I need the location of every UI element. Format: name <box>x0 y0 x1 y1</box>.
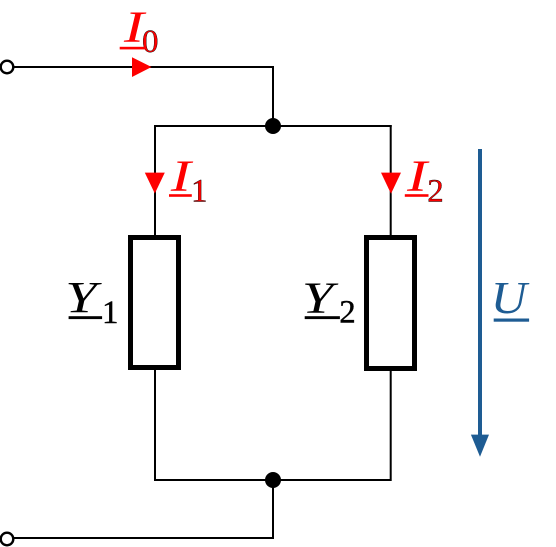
svg-text:0: 0 <box>142 24 159 60</box>
svg-text:I: I <box>170 152 194 201</box>
svg-text:1: 1 <box>191 174 208 210</box>
svg-text:2: 2 <box>339 295 356 331</box>
svg-text:2: 2 <box>427 174 444 210</box>
svg-text:1: 1 <box>102 295 119 331</box>
svg-text:I: I <box>406 152 430 201</box>
svg-text:U: U <box>491 274 530 324</box>
svg-text:Y: Y <box>302 273 339 322</box>
svg-text:Y: Y <box>65 273 102 322</box>
